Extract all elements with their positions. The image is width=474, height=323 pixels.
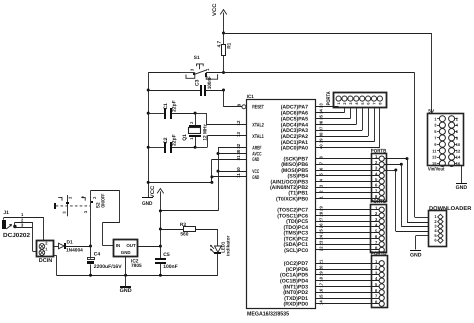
svg-text:9: 9 xyxy=(434,142,437,147)
svg-text:3: 3 xyxy=(349,103,353,105)
svg-text:29: 29 xyxy=(319,206,324,211)
wire MISO PB6 to downloader xyxy=(384,163,428,227)
wire Vin/Vout to ground xyxy=(461,165,463,183)
svg-text:30: 30 xyxy=(236,149,241,154)
LED LED1 indikator xyxy=(210,229,230,275)
svg-text:5: 5 xyxy=(361,103,365,105)
svg-text:24: 24 xyxy=(319,234,324,239)
svg-text:1: 1 xyxy=(21,212,24,217)
svg-text:(ADC0)PA0: (ADC0)PA0 xyxy=(281,146,308,152)
svg-text:3: 3 xyxy=(375,166,378,171)
svg-text:6: 6 xyxy=(375,183,378,188)
svg-text:7: 7 xyxy=(434,136,437,141)
svg-text:Q1: Q1 xyxy=(182,134,188,141)
svg-text:7805: 7805 xyxy=(131,263,142,269)
connector PORTD xyxy=(371,251,388,308)
voltage regulator IC2 7805 xyxy=(114,240,143,270)
svg-text:35: 35 xyxy=(319,114,324,119)
svg-text:6: 6 xyxy=(456,129,459,134)
svg-text:3: 3 xyxy=(434,123,437,128)
connector Vin/Vout (5V header) xyxy=(428,109,464,173)
svg-text:OUT: OUT xyxy=(126,243,136,248)
ground symbol (downloader) xyxy=(410,250,422,258)
wire GND pins bus xyxy=(147,159,246,184)
svg-text:25: 25 xyxy=(319,229,324,234)
svg-text:GND: GND xyxy=(120,288,132,294)
svg-text:(RXD)PD0: (RXD)PD0 xyxy=(284,302,309,308)
svg-text:13: 13 xyxy=(432,155,437,160)
svg-text:C3: C3 xyxy=(195,79,201,86)
svg-text:RESET: RESET xyxy=(252,105,264,111)
svg-text:15: 15 xyxy=(319,294,324,299)
svg-text:MEGA16/32/8535: MEGA16/32/8535 xyxy=(247,311,290,318)
svg-text:1: 1 xyxy=(205,68,210,71)
svg-text:indikator: indikator xyxy=(225,235,230,256)
svg-text:7: 7 xyxy=(319,161,324,164)
wire AREF/AVCC/VCC feed xyxy=(160,148,246,211)
svg-text:40: 40 xyxy=(319,144,324,149)
svg-text:1N4004: 1N4004 xyxy=(66,247,83,253)
svg-text:39: 39 xyxy=(319,138,324,143)
svg-text:16: 16 xyxy=(456,161,461,166)
svg-text:27: 27 xyxy=(319,217,324,222)
svg-text:12: 12 xyxy=(456,148,461,153)
svg-text:C5: C5 xyxy=(163,252,170,258)
svg-text:11: 11 xyxy=(432,148,437,153)
svg-text:(T0/XCK)PB0: (T0/XCK)PB0 xyxy=(276,196,308,202)
op IC1 MEGA16/32/8535 body xyxy=(247,94,316,317)
IC1 RESET bubble pin 9 xyxy=(237,103,246,109)
svg-text:6: 6 xyxy=(367,103,371,105)
svg-text:J1: J1 xyxy=(3,210,9,216)
svg-text:GND: GND xyxy=(456,185,468,191)
svg-text:C1: C1 xyxy=(163,103,169,110)
svg-text:3: 3 xyxy=(61,211,66,214)
svg-text:8: 8 xyxy=(379,103,383,105)
ground symbol (crystal caps) xyxy=(142,197,153,207)
wire XTAL1 link (pin 13) xyxy=(194,136,246,149)
svg-text:3: 3 xyxy=(190,68,195,71)
svg-text:6: 6 xyxy=(434,238,437,243)
svg-text:(SCL)PC0: (SCL)PC0 xyxy=(284,248,308,254)
wire VCC column xyxy=(159,211,162,231)
wire IC2 OUT to VCC node xyxy=(138,229,162,258)
svg-text:13: 13 xyxy=(236,132,241,137)
svg-text:C2: C2 xyxy=(163,137,169,144)
svg-text:37: 37 xyxy=(319,126,324,131)
svg-text:2200uF/16V: 2200uF/16V xyxy=(94,264,122,270)
IC1 port C pins xyxy=(277,206,379,254)
svg-text:1: 1 xyxy=(434,116,437,121)
IC1 port A pins with stair wires to PORTA xyxy=(281,103,380,152)
svg-text:IN: IN xyxy=(116,243,120,248)
wire S2 to rectifier junction xyxy=(90,216,92,246)
connector PORTA xyxy=(326,91,387,107)
ground symbol (Vin/Vout) xyxy=(456,183,468,191)
IC1 left pin numbers xyxy=(236,120,241,178)
svg-text:3: 3 xyxy=(83,210,88,213)
svg-text:4: 4 xyxy=(355,102,359,105)
svg-text:14: 14 xyxy=(319,300,324,305)
svg-text:4: 4 xyxy=(319,178,324,181)
svg-text:2: 2 xyxy=(189,121,194,124)
svg-text:19: 19 xyxy=(319,271,324,276)
svg-text:23: 23 xyxy=(319,240,324,245)
svg-text:Vin/Vout: Vin/Vout xyxy=(428,166,445,172)
svg-text:22pF: 22pF xyxy=(172,100,178,112)
capacitor C5 100nF xyxy=(155,252,178,275)
svg-text:3: 3 xyxy=(21,223,24,228)
svg-text:7: 7 xyxy=(373,103,377,105)
svg-text:DCIN: DCIN xyxy=(39,258,53,264)
svg-text:2: 2 xyxy=(343,103,347,105)
connector PORTB xyxy=(371,148,387,201)
svg-text:4.7: 4.7 xyxy=(217,41,223,48)
svg-text:31: 31 xyxy=(236,155,241,160)
svg-text:ON/OFF: ON/OFF xyxy=(100,194,106,208)
connector DOWNLOADER (ISP header) xyxy=(429,206,472,247)
svg-text:32: 32 xyxy=(236,143,241,148)
IC1 port B pins xyxy=(270,156,379,203)
resistor R3 560 xyxy=(160,222,218,237)
wire downloader pin5 to ground xyxy=(416,236,429,250)
wire S2 to IC2 IN (detour) xyxy=(91,191,120,246)
svg-text:S1: S1 xyxy=(194,55,200,61)
connector PORTC xyxy=(370,199,386,253)
svg-text:38: 38 xyxy=(319,132,324,137)
wire MOSI PB5 to downloader xyxy=(384,169,428,232)
svg-text:XTAL2: XTAL2 xyxy=(252,122,264,128)
svg-text:GND: GND xyxy=(121,250,131,255)
power symbol VCC (near IC) xyxy=(150,185,164,212)
svg-text:2: 2 xyxy=(456,116,459,121)
svg-text:4: 4 xyxy=(456,123,459,128)
capacitor C1 22pF xyxy=(147,100,195,119)
wire ground rail (left) xyxy=(148,73,180,198)
svg-text:12: 12 xyxy=(236,120,241,125)
svg-text:100nF: 100nF xyxy=(207,76,213,89)
svg-text:C4: C4 xyxy=(94,252,101,258)
svg-text:1: 1 xyxy=(189,137,194,140)
svg-text:D1: D1 xyxy=(67,239,73,245)
svg-text:36: 36 xyxy=(319,120,324,125)
svg-text:GND: GND xyxy=(252,175,259,181)
svg-text:14: 14 xyxy=(456,155,461,160)
resistor R1 4k7 xyxy=(217,33,233,73)
capacitor C2 22pF xyxy=(147,134,195,153)
svg-text:100nF: 100nF xyxy=(163,264,177,270)
svg-text:GND: GND xyxy=(252,157,259,163)
diode D1 1N4004 xyxy=(53,239,91,253)
switch S1 (reset pushbutton) xyxy=(180,55,224,79)
wire ground bus (bottom) xyxy=(53,255,218,276)
svg-text:26: 26 xyxy=(319,223,324,228)
svg-text:16: 16 xyxy=(319,288,324,293)
svg-text:PORTA: PORTA xyxy=(326,91,332,105)
svg-text:VCC: VCC xyxy=(212,3,218,16)
svg-text:3: 3 xyxy=(319,184,324,187)
svg-text:21: 21 xyxy=(319,259,324,264)
svg-text:560: 560 xyxy=(180,232,188,238)
svg-text:22pF: 22pF xyxy=(172,134,178,146)
svg-text:6: 6 xyxy=(319,167,324,170)
svg-text:8: 8 xyxy=(456,136,459,141)
svg-text:2: 2 xyxy=(375,265,378,270)
IC1 port D pins xyxy=(280,259,379,308)
capacitor C4 2200uF/16V xyxy=(87,245,122,276)
wire VCC top rail to 5V xyxy=(222,32,432,114)
capacitor C3 100nF xyxy=(147,76,225,96)
svg-text:11: 11 xyxy=(236,173,241,178)
svg-text:18: 18 xyxy=(319,276,324,281)
svg-text:IC1: IC1 xyxy=(247,94,254,100)
svg-text:1: 1 xyxy=(337,103,341,105)
svg-text:1: 1 xyxy=(319,195,324,198)
svg-text:R3: R3 xyxy=(180,222,186,228)
svg-text:GND: GND xyxy=(142,201,153,207)
svg-text:2: 2 xyxy=(319,190,324,193)
svg-text:DCJ0202: DCJ0202 xyxy=(3,232,31,239)
bridge rectifier DCIN xyxy=(37,241,54,265)
svg-text:9: 9 xyxy=(237,103,242,106)
svg-text:10: 10 xyxy=(236,167,241,172)
wire SCK PB7 to downloader xyxy=(384,157,428,222)
svg-text:8: 8 xyxy=(319,156,324,159)
wire XTAL2 link (pin 12) xyxy=(194,112,246,125)
connector J1 DCJ0202 power jack xyxy=(2,210,44,251)
svg-text:5: 5 xyxy=(434,129,437,134)
svg-text:GND: GND xyxy=(410,252,422,258)
svg-text:VCC: VCC xyxy=(150,185,156,198)
svg-text:10: 10 xyxy=(456,142,461,147)
svg-text:34: 34 xyxy=(319,108,324,113)
ground symbol (IC2) xyxy=(120,257,132,295)
svg-text:17: 17 xyxy=(319,282,324,287)
svg-text:R1: R1 xyxy=(227,42,233,48)
svg-text:20: 20 xyxy=(319,265,324,270)
svg-text:22: 22 xyxy=(319,246,324,251)
svg-text:7: 7 xyxy=(375,294,378,299)
svg-text:33: 33 xyxy=(319,103,324,108)
IC1 left pin name labels xyxy=(252,105,264,181)
power symbol VCC (top) xyxy=(212,3,227,33)
svg-text:2: 2 xyxy=(67,196,72,199)
wire RESET net to downloader xyxy=(222,71,428,218)
svg-text:XTAL1: XTAL1 xyxy=(252,134,264,140)
switch S2 ON/OFF xyxy=(54,194,106,217)
svg-text:1: 1 xyxy=(45,246,48,251)
svg-text:2: 2 xyxy=(92,196,97,199)
svg-text:28: 28 xyxy=(319,211,324,216)
crystal Q1 12 MHz xyxy=(182,113,208,147)
wire RESET to IC pin 9 xyxy=(224,90,242,107)
svg-text:5: 5 xyxy=(319,173,324,176)
